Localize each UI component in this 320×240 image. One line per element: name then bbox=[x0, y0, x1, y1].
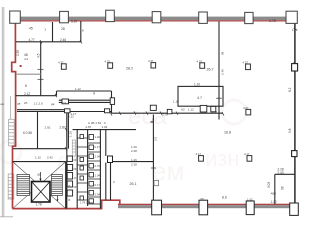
svg-text:2.28: 2.28 bbox=[131, 162, 137, 166]
left exterior red wall bbox=[12, 23, 120, 209]
wall row1 bottom bbox=[16, 41, 81, 43]
svg-text:А 2Б 1.52: А 2Б 1.52 bbox=[88, 121, 101, 125]
svg-text:2.04: 2.04 bbox=[95, 155, 101, 159]
svg-text:16.8: 16.8 bbox=[224, 131, 231, 135]
room 47 bbox=[178, 86, 223, 106]
bottom wall gray band bbox=[118, 205, 294, 208]
svg-text:≡: ≡ bbox=[104, 121, 106, 125]
svg-text:2.46: 2.46 bbox=[221, 69, 225, 75]
pillar bottom 1 bbox=[152, 200, 162, 215]
right wall pillars bbox=[292, 64, 298, 157]
balcony rail upper left bbox=[9, 119, 15, 146]
svg-text:0.17: 0.17 bbox=[95, 145, 101, 149]
svg-text:4.17: 4.17 bbox=[196, 152, 202, 156]
svg-text:4.77: 4.77 bbox=[29, 38, 35, 42]
svg-text:2б: 2б bbox=[24, 101, 28, 105]
svg-text:0.17: 0.17 bbox=[95, 183, 101, 187]
svg-text:eca: eca bbox=[128, 103, 167, 130]
svg-text:98: 98 bbox=[281, 186, 285, 190]
svg-text:2.55: 2.55 bbox=[16, 50, 20, 56]
corridor upper double line bbox=[17, 109, 67, 111]
svg-text:1.02: 1.02 bbox=[271, 200, 277, 204]
svg-text:А2: А2 bbox=[181, 107, 185, 111]
svg-text:2.0: 2.0 bbox=[154, 136, 158, 141]
top wall red interior line bbox=[19, 20, 291, 21]
pillar top 6 bbox=[245, 12, 253, 23]
svg-text:0.79: 0.79 bbox=[95, 164, 101, 168]
column C1 bbox=[151, 63, 156, 68]
svg-text:5.67: 5.67 bbox=[71, 20, 78, 24]
svg-text:4.37: 4.37 bbox=[243, 61, 249, 65]
column E1 bbox=[246, 64, 251, 70]
svg-text:2.92: 2.92 bbox=[45, 126, 51, 130]
hall partition wall x219 bbox=[216, 22, 222, 120]
partition room3 right bbox=[40, 42, 42, 96]
pillar top 3 bbox=[106, 10, 115, 21]
bottom wall red line bbox=[118, 204, 294, 206]
svg-text:2.40: 2.40 bbox=[278, 171, 284, 175]
pillar right wall upper bbox=[292, 64, 298, 71]
bathroom block outer bbox=[73, 130, 137, 209]
door marker on corridor wall bbox=[154, 181, 159, 186]
svg-text:98: 98 bbox=[221, 51, 225, 55]
svg-text:1.1 2.0: 1.1 2.0 bbox=[34, 102, 44, 106]
svg-text:09: 09 bbox=[38, 173, 42, 177]
svg-text:нв: нв bbox=[1, 102, 5, 106]
wc boxes right of stair bbox=[67, 156, 72, 196]
wall below embedded column bbox=[110, 163, 112, 201]
svg-text:4.97: 4.97 bbox=[243, 106, 249, 110]
column on wall bbox=[108, 156, 113, 163]
partition right of room2 bbox=[80, 21, 82, 42]
pillar top 5 bbox=[199, 12, 208, 23]
corridor connector bbox=[111, 91, 113, 113]
column B1 bbox=[108, 63, 113, 69]
svg-text:Б: Б bbox=[69, 184, 71, 188]
stair block top wall bbox=[13, 161, 66, 163]
step connector bbox=[56, 91, 58, 96]
svg-text:4.37: 4.37 bbox=[197, 59, 203, 63]
svg-text:6 0.58: 6 0.58 bbox=[23, 131, 32, 135]
svg-text:1.10: 1.10 bbox=[194, 83, 200, 87]
pillar bottom 3 bbox=[246, 201, 254, 215]
stair block right wall bbox=[65, 162, 67, 209]
svg-text:4.37: 4.37 bbox=[148, 59, 154, 63]
svg-text:2.6: 2.6 bbox=[62, 101, 67, 105]
svg-text:2.42: 2.42 bbox=[47, 156, 53, 160]
svg-text:8.2: 8.2 bbox=[288, 87, 292, 92]
svg-text:4.17: 4.17 bbox=[244, 152, 250, 156]
svg-text:3.03: 3.03 bbox=[267, 182, 271, 188]
svg-text:1.12: 1.12 bbox=[75, 87, 81, 91]
svg-text:Я: Я bbox=[93, 92, 95, 96]
svg-text:06: 06 bbox=[201, 197, 205, 201]
svg-text:изн: изн bbox=[205, 146, 240, 171]
pillar top 2 bbox=[60, 11, 69, 22]
elevator shaft bbox=[32, 182, 51, 203]
svg-text:1.02: 1.02 bbox=[102, 125, 108, 129]
room4 bottom bbox=[16, 95, 57, 97]
pillar top 4 bbox=[152, 12, 161, 23]
svg-text:1.78: 1.78 bbox=[36, 203, 42, 207]
svg-text:26.1: 26.1 bbox=[130, 182, 137, 186]
svg-text:Б: Б bbox=[69, 198, 71, 202]
svg-text:1.04: 1.04 bbox=[95, 174, 101, 178]
notch stub bbox=[20, 65, 22, 67]
svg-text:дв: дв bbox=[17, 102, 21, 106]
gray line above rail bbox=[10, 96, 12, 119]
svg-text:4.7: 4.7 bbox=[197, 96, 202, 100]
left lower rooms partition bbox=[37, 112, 39, 149]
svg-text:2.87: 2.87 bbox=[60, 126, 66, 130]
svg-text:4.37: 4.37 bbox=[58, 60, 64, 64]
bathroom row dividers bbox=[77, 138, 100, 204]
svg-text:1.10: 1.10 bbox=[173, 99, 179, 103]
vestibule double line bbox=[59, 99, 112, 101]
bathroom inner center wall bbox=[87, 130, 89, 206]
svg-text:1.26: 1.26 bbox=[131, 158, 137, 162]
stair diagonals bbox=[13, 162, 65, 208]
vertical wall left of shaft block bbox=[66, 110, 68, 209]
interior column row2 bbox=[246, 109, 251, 115]
lower rooms bottom line bbox=[13, 148, 67, 150]
page border gray lines left bbox=[0, 7, 13, 217]
hall bottom line bbox=[57, 90, 112, 92]
stair block bottom red wall bbox=[13, 200, 120, 208]
bathroom fixtures bbox=[80, 135, 94, 204]
svg-text:4.2: 4.2 bbox=[24, 57, 29, 61]
pillar bottom 2 bbox=[199, 200, 208, 215]
svg-text:6: 6 bbox=[25, 84, 27, 88]
partition room1/room2 bbox=[52, 22, 54, 42]
svg-text:9.8: 9.8 bbox=[288, 128, 292, 133]
svg-text:1.78: 1.78 bbox=[269, 19, 276, 23]
stair left flight bbox=[17, 175, 30, 196]
pillar right wall lower bbox=[292, 151, 297, 157]
svg-text:8.6: 8.6 bbox=[222, 196, 227, 200]
svg-text:4.5: 4.5 bbox=[37, 53, 41, 58]
svg-text:28: 28 bbox=[61, 27, 65, 31]
dimension ticks bbox=[38, 28, 297, 151]
hatch strip left of bathroom block bbox=[72, 140, 75, 156]
pillar top-left corner bbox=[10, 11, 21, 23]
svg-text:1.02: 1.02 bbox=[95, 135, 101, 139]
interior columns row3 bbox=[199, 156, 204, 162]
stair right flight bbox=[52, 175, 63, 196]
column A1 bbox=[61, 64, 66, 70]
svg-text:2.87: 2.87 bbox=[86, 125, 92, 129]
column D1 bbox=[200, 63, 205, 69]
watermark bbox=[0, 100, 246, 163]
svg-text:26.7: 26.7 bbox=[207, 68, 214, 72]
svg-text:2.12: 2.12 bbox=[24, 92, 30, 96]
middle room top wall bbox=[113, 161, 154, 163]
svg-text:2.28: 2.28 bbox=[131, 149, 137, 153]
balcony rail lower left bbox=[8, 174, 14, 199]
bottom right room bbox=[275, 174, 295, 204]
svg-text:28.2: 28.2 bbox=[126, 67, 133, 71]
svg-text:б: б bbox=[113, 180, 115, 184]
pillar top-right corner bbox=[286, 11, 297, 23]
svg-text:2.78: 2.78 bbox=[162, 112, 168, 116]
svg-text:1.02: 1.02 bbox=[247, 197, 253, 201]
svg-text:1.17: 1.17 bbox=[71, 112, 77, 116]
pillar bottom-right corner bbox=[290, 203, 299, 215]
right wall bbox=[294, 24, 296, 205]
corridor lower line bbox=[112, 112, 224, 114]
svg-text:дв: дв bbox=[51, 102, 55, 106]
svg-text:2.46: 2.46 bbox=[60, 38, 66, 42]
svg-text:1.10: 1.10 bbox=[69, 131, 73, 137]
svg-text:АВ2: АВ2 bbox=[271, 192, 277, 196]
svg-text:4.37: 4.37 bbox=[105, 59, 111, 63]
svg-text:1.10: 1.10 bbox=[35, 156, 41, 160]
corridor right wall bbox=[113, 115, 154, 205]
svg-text:1.78 140: 1.78 140 bbox=[80, 201, 91, 205]
svg-text:2.04: 2.04 bbox=[95, 193, 101, 197]
corridor door boxes bbox=[62, 98, 216, 114]
svg-text:1.12: 1.12 bbox=[188, 107, 194, 111]
top wall gray band bbox=[19, 17, 291, 21]
stair arrow bbox=[40, 172, 42, 181]
svg-text:45: 45 bbox=[29, 27, 33, 31]
room3/room4 divider gray bbox=[16, 73, 41, 75]
